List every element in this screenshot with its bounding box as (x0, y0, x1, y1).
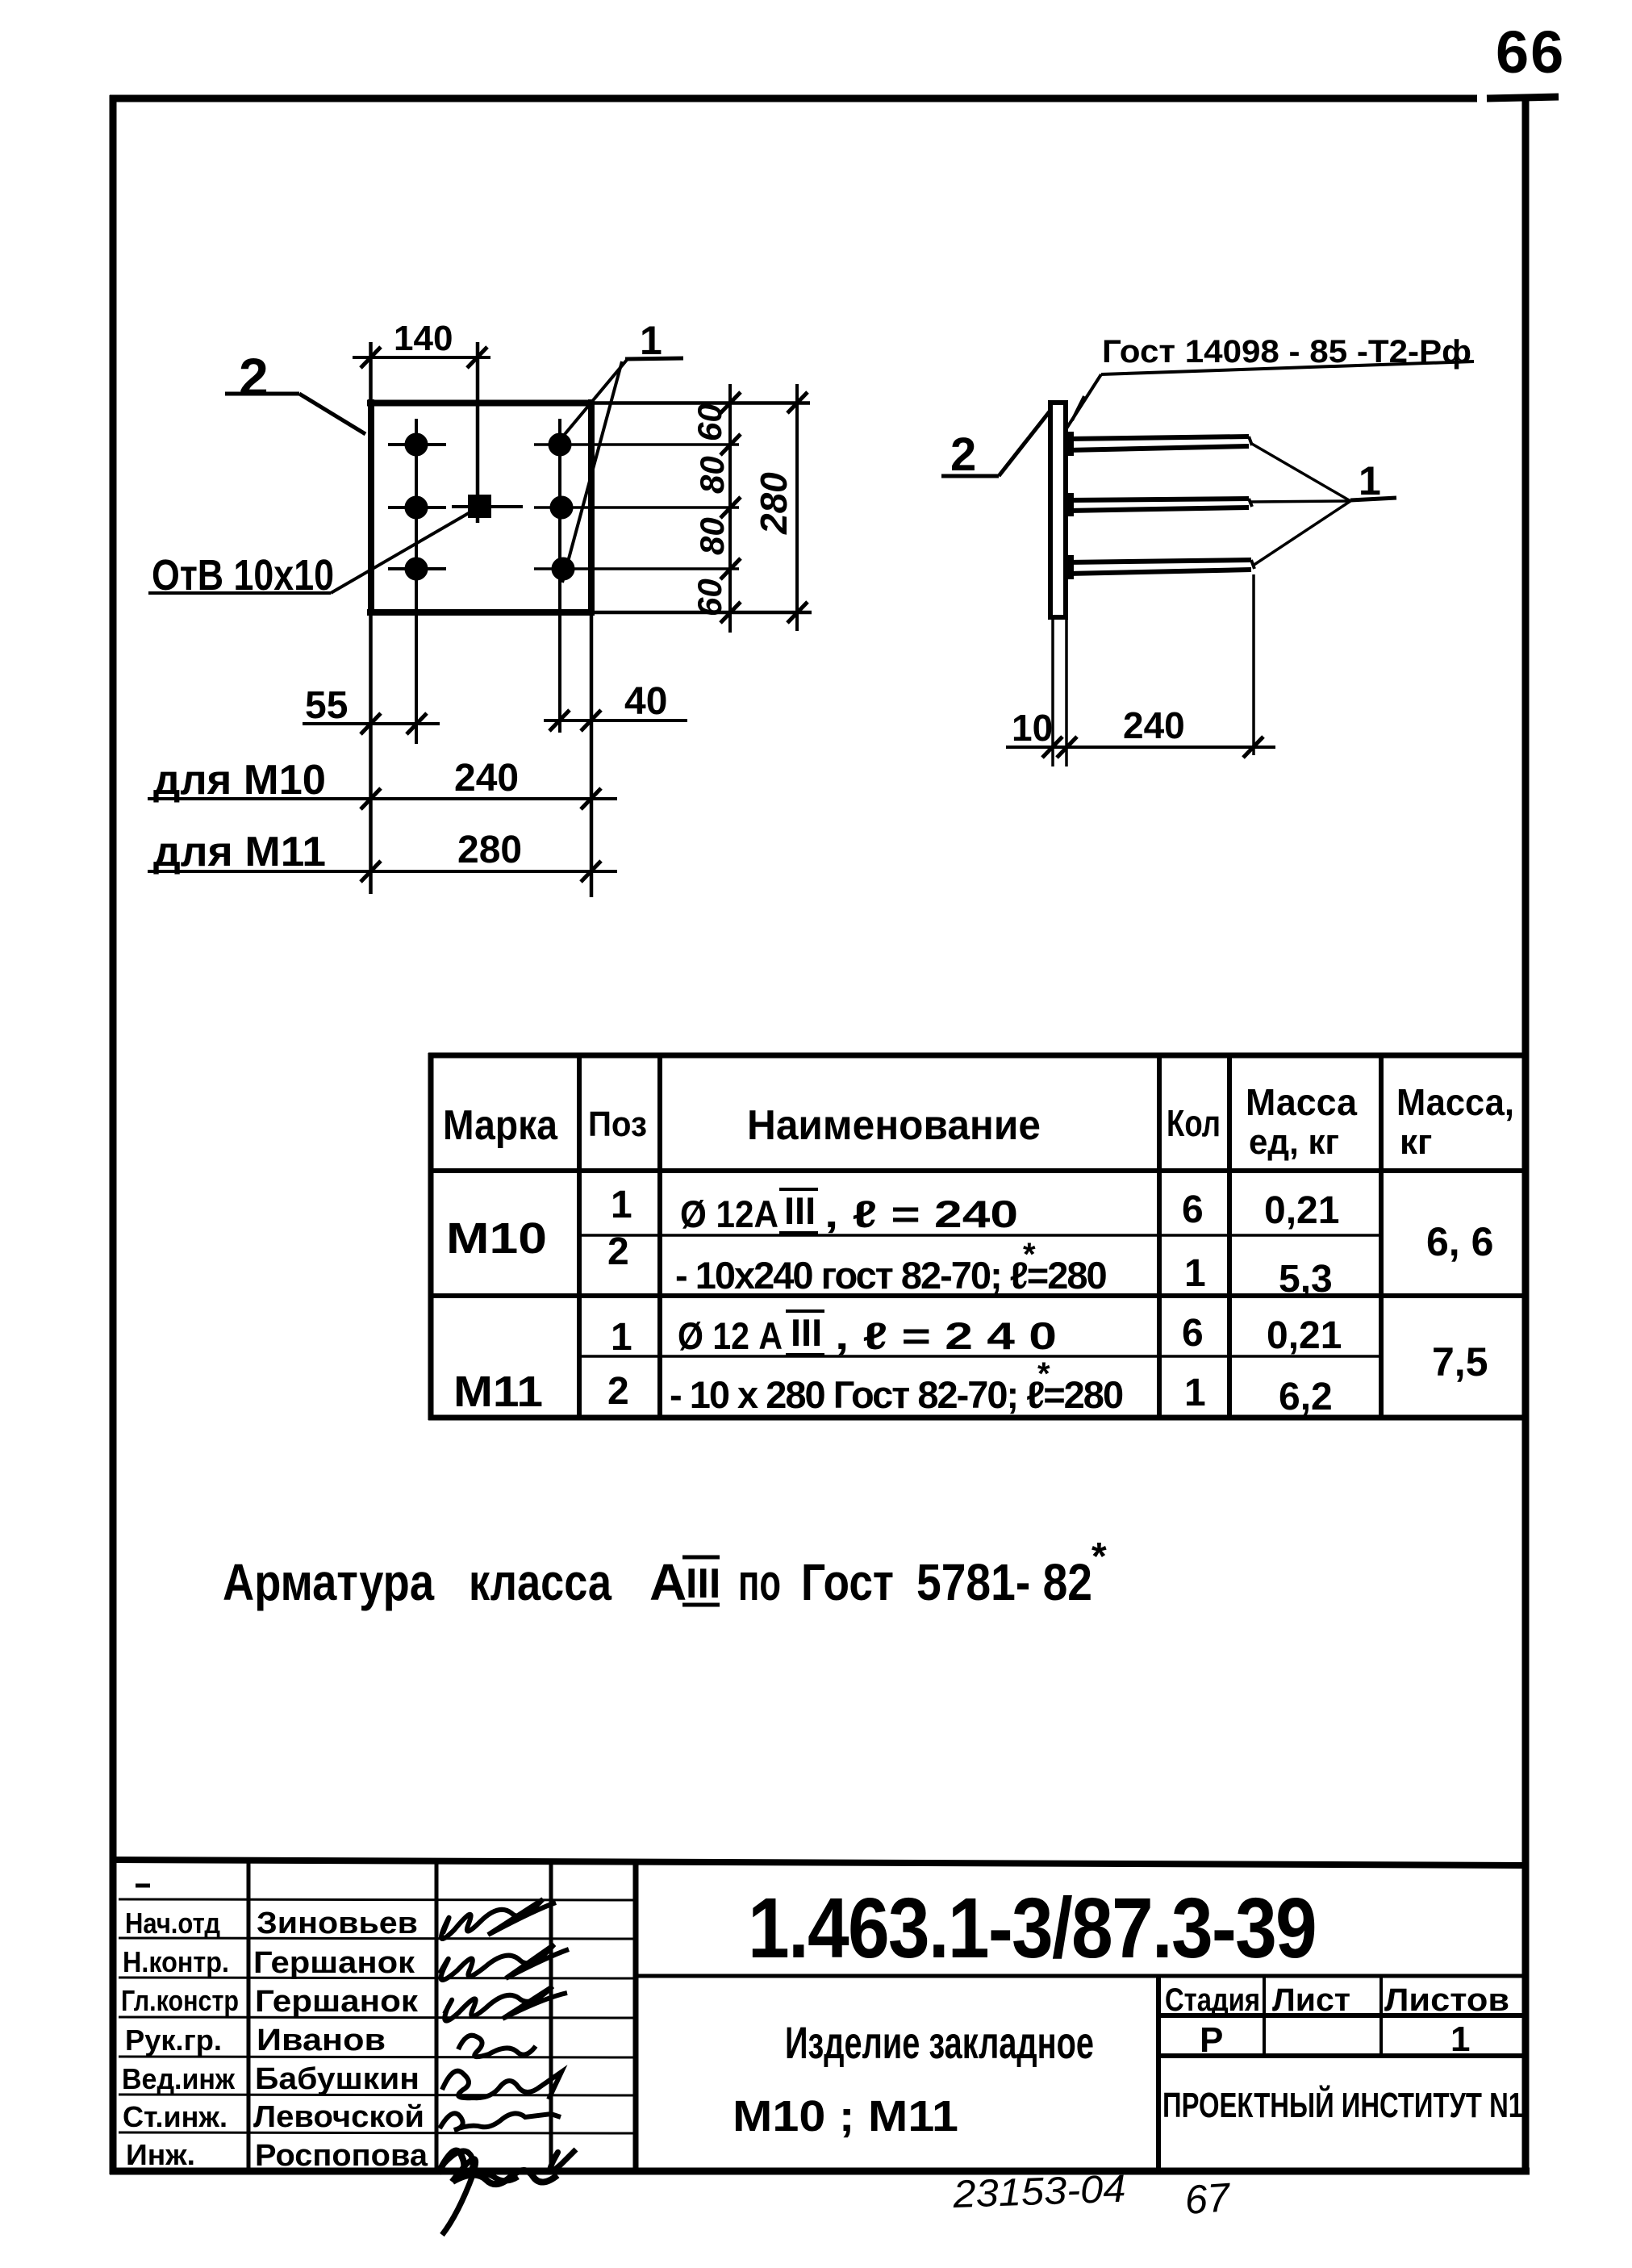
dimension 140 (353, 356, 490, 359)
note: reinforcement class (223, 1535, 1107, 1611)
svg-text:для М11: для М11 (153, 829, 326, 875)
position leader 1 (plan) (640, 318, 662, 363)
svg-text:280: 280 (457, 829, 522, 871)
svg-text:Левочской: Левочской (253, 2100, 424, 2134)
svg-text:240: 240 (454, 757, 519, 800)
weld marks at plate-rod joints (1063, 432, 1074, 579)
dimension 55 (303, 722, 440, 725)
svg-text:6: 6 (1182, 1188, 1204, 1231)
svg-text:Гершанок: Гершанок (255, 1985, 419, 2019)
table column Марка values (446, 1214, 547, 1416)
svg-text:кг: кг (1400, 1122, 1432, 1162)
svg-text:Поз: Поз (588, 1105, 647, 1144)
left anchor column centerline (415, 419, 418, 744)
svg-text:1: 1 (640, 318, 662, 363)
svg-text:6,2: 6,2 (1279, 1376, 1333, 1418)
svg-text:Инж.: Инж. (126, 2138, 195, 2171)
plate edge extension lines (371, 342, 812, 897)
svg-text:*: * (1037, 1356, 1050, 1392)
svg-text:6, 6: 6, 6 (1426, 1219, 1493, 1264)
asterisks in table (1023, 1237, 1050, 1392)
svg-text:2: 2 (950, 428, 976, 481)
svg-text:80: 80 (693, 517, 731, 555)
svg-text:1.463.1-3/87.3-39: 1.463.1-3/87.3-39 (748, 1881, 1316, 1976)
svg-text:Кол: Кол (1167, 1102, 1221, 1144)
svg-text:ПРОЕКТНЫЙ ИНСТИТУТ N1: ПРОЕКТНЫЙ ИНСТИТУТ N1 (1162, 2084, 1523, 2125)
table header text (443, 1081, 1514, 1162)
position leader 2 (plan) (239, 347, 269, 407)
signature column names (253, 1907, 428, 2173)
dimension 280 для М11 (148, 870, 617, 873)
svg-text:Нач.отд: Нач.отд (125, 1907, 220, 1940)
svg-text:- 10х240 гост 82-70; ℓ=280: - 10х240 гост 82-70; ℓ=280 (675, 1254, 1106, 1297)
svg-text:Ø 12 А: Ø 12 А (678, 1314, 783, 1357)
svg-text:10: 10 (1012, 707, 1053, 749)
dimension 240 для М10 (148, 797, 617, 800)
page number 66 (1496, 19, 1565, 86)
svg-text:1: 1 (1450, 2019, 1470, 2059)
svg-text:66: 66 (1496, 19, 1565, 86)
svg-text:280: 280 (753, 472, 795, 535)
svg-text:Зиновьев: Зиновьев (257, 1907, 418, 1940)
III over/underline marks (779, 1189, 824, 1355)
center hole 10x10 (452, 495, 523, 518)
handwritten signatures (438, 1899, 576, 2235)
svg-text:Марка: Марка (443, 1102, 558, 1149)
anchor rod ends, left column (388, 435, 446, 579)
svg-text:67: 67 (1183, 2174, 1233, 2223)
dimension chain 60-80-80-60 (728, 384, 732, 633)
position leader 2 (side) (950, 428, 976, 481)
table column Масса values (1426, 1219, 1493, 1385)
svg-text:Иванов: Иванов (257, 2024, 386, 2057)
designation cell (748, 1881, 1316, 1976)
svg-text:Рук.гр.: Рук.гр. (125, 2024, 222, 2057)
small dash in blank row (136, 1884, 150, 1888)
dimension 40 (544, 719, 687, 722)
svg-text:Масса: Масса (1246, 1081, 1357, 1123)
svg-text:Лист: Лист (1272, 1982, 1350, 2018)
svg-text:80: 80 (693, 456, 731, 494)
svg-text:Н.контр.: Н.контр. (123, 1945, 229, 1978)
svg-text:М11: М11 (453, 1368, 543, 1416)
svg-text:5781- 82: 5781- 82 (916, 1553, 1092, 1611)
svg-text:0,21: 0,21 (1267, 1314, 1342, 1357)
svg-text:А: А (649, 1553, 687, 1611)
svg-text:55: 55 (305, 684, 348, 727)
svg-text:Роспопова: Роспопова (255, 2139, 428, 2173)
svg-text:*: * (1023, 1237, 1036, 1272)
svg-text:0,21: 0,21 (1264, 1189, 1339, 1232)
svg-text:5,3: 5,3 (1279, 1258, 1333, 1301)
svg-text:Гл.констр: Гл.констр (121, 1984, 239, 2017)
svg-text:140: 140 (394, 319, 453, 358)
svg-text:2: 2 (607, 1230, 629, 1273)
svg-text:класса: класса (469, 1553, 611, 1611)
svg-text:Р: Р (1200, 2020, 1223, 2060)
anchor rod ends, right column (550, 435, 574, 579)
anchor rod middle (side) (1067, 499, 1249, 511)
table column Поз values (607, 1184, 632, 1413)
plate (side view) (1050, 403, 1066, 617)
dimension 280 vertical (795, 384, 799, 631)
svg-text:1: 1 (1184, 1372, 1206, 1414)
svg-text:, ℓ = 240: , ℓ = 240 (824, 1192, 1018, 1235)
plate outline (plan view) (367, 399, 595, 616)
svg-text:Гершанок: Гершанок (253, 1946, 415, 1980)
svg-text:- 10 х 280 Гост 82-70; ℓ=280: - 10 х 280 Гост 82-70; ℓ=280 (670, 1373, 1123, 1416)
svg-text:III: III (686, 1560, 720, 1607)
signature column labels (121, 1907, 239, 2171)
svg-text:Стадия: Стадия (1165, 1982, 1260, 2018)
title block signature grid (248, 1861, 551, 2171)
anchor rod end caps (side) (1249, 436, 1254, 569)
label ОтВ 10х10 with leader (152, 551, 334, 599)
svg-text:23153-04: 23153-04 (951, 2168, 1126, 2216)
anchor rod bottom (side) (1067, 560, 1251, 574)
svg-text:60: 60 (691, 403, 728, 441)
svg-text:2: 2 (239, 347, 269, 407)
svg-text:Ст.инж.: Ст.инж. (123, 2100, 227, 2133)
svg-text:1: 1 (611, 1184, 632, 1226)
svg-text:7,5: 7,5 (1432, 1339, 1488, 1385)
svg-text:Бабушкин: Бабушкин (255, 2062, 419, 2096)
svg-text:по: по (738, 1553, 781, 1611)
row extension lines to dimension chain (534, 445, 739, 569)
svg-text:Арматура: Арматура (223, 1553, 434, 1611)
svg-text:1: 1 (611, 1316, 632, 1359)
svg-text:Листов: Листов (1384, 1982, 1509, 2018)
svg-text:1: 1 (1184, 1252, 1206, 1295)
svg-text:Гост: Гост (801, 1553, 894, 1611)
svg-text:М10: М10 (446, 1214, 547, 1263)
table column Масса ед values (1264, 1189, 1342, 1418)
svg-text:40: 40 (624, 680, 667, 723)
svg-text:60: 60 (691, 578, 728, 616)
svg-text:Масса,: Масса, (1396, 1081, 1514, 1123)
svg-text:М10 ; М11: М10 ; М11 (733, 2092, 958, 2141)
svg-text:Ø 12А: Ø 12А (680, 1192, 778, 1235)
svg-text:2: 2 (607, 1370, 629, 1413)
svg-text:*: * (1091, 1535, 1107, 1578)
svg-text:6: 6 (1182, 1312, 1204, 1355)
svg-text:Изделие закладное: Изделие закладное (785, 2017, 1094, 2068)
stadia-list-listov grid (1158, 1976, 1526, 2171)
svg-text:ед, кг: ед, кг (1249, 1122, 1339, 1162)
title block outer lines (110, 1860, 1526, 1865)
document name cell (733, 2017, 1094, 2141)
handwritten archive numbers (951, 2168, 1233, 2223)
dimension 10 and 240 (side) (1006, 746, 1275, 749)
table column Наименование values (670, 1189, 1123, 1416)
table column Кол values (1182, 1188, 1206, 1414)
svg-text:III: III (784, 1189, 816, 1232)
label ГОСТ 14098-85-Т2-Рф with leader (1102, 334, 1471, 370)
svg-text:III: III (791, 1311, 822, 1354)
plate extension lines below (1053, 620, 1066, 766)
svg-text:для М10: для М10 (153, 757, 326, 804)
svg-text:Наименование: Наименование (747, 1102, 1041, 1149)
position leader 1 (side) (1359, 458, 1381, 503)
svg-text:1: 1 (1359, 458, 1381, 503)
parts table grid (428, 1053, 1526, 1420)
svg-text:Вед.инж: Вед.инж (122, 2062, 235, 2095)
project institute cell (1162, 2084, 1523, 2125)
right anchor column centerline (558, 419, 561, 733)
svg-text:, ℓ = 2 4 0: , ℓ = 2 4 0 (835, 1314, 1057, 1357)
anchor rod top (side) (1067, 436, 1249, 450)
svg-text:240: 240 (1123, 704, 1185, 746)
